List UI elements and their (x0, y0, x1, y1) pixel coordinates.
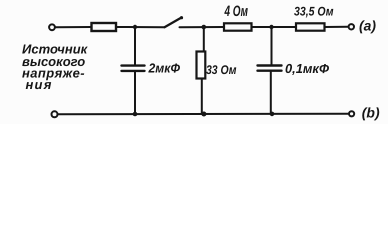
svg-text:2мкФ: 2мкФ (148, 61, 181, 76)
svg-text:33,5 Ом: 33,5 Ом (294, 5, 334, 19)
svg-text:0,1мкФ: 0,1мкФ (285, 61, 330, 76)
svg-text:4 Ом: 4 Ом (224, 3, 248, 20)
svg-text:ния: ния (26, 77, 53, 92)
svg-text:(b): (b) (362, 105, 380, 121)
svg-text:(a): (a) (359, 18, 376, 34)
svg-text:33 Ом: 33 Ом (206, 63, 237, 77)
